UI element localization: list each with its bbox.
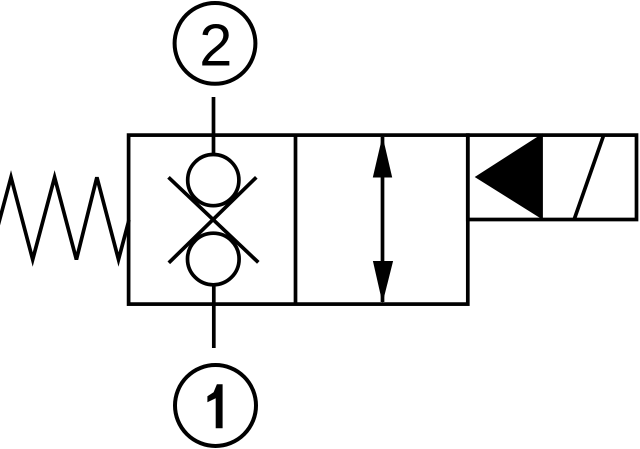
port circle 2 — [175, 3, 256, 84]
wire port 2 leader — [212, 97, 216, 153]
arrow shaft — [381, 137, 385, 302]
port circle 1 — [175, 365, 256, 446]
solenoid triangle — [478, 136, 542, 217]
wire section divider — [294, 135, 298, 304]
valve body box — [129, 135, 468, 304]
arrowhead up — [373, 136, 392, 178]
spring — [0, 177, 129, 259]
cross line NE-SW — [169, 177, 256, 262]
svg-text:2: 2 — [199, 11, 232, 78]
port label 1 — [207, 384, 222, 428]
solenoid slash — [575, 135, 604, 219]
ball valve circle upper — [188, 155, 239, 206]
ball valve circle lower — [188, 233, 240, 285]
wire port 1 internal — [212, 286, 216, 348]
cross line NW-SE — [169, 177, 259, 262]
solenoid box — [468, 135, 637, 219]
arrowhead down — [373, 261, 393, 303]
